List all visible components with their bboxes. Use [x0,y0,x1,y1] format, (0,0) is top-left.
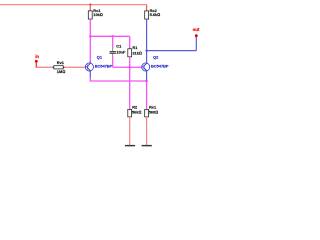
wire Re1 to ground [146,117,148,145]
resistor Rv1 [53,60,66,74]
wire out horizontal [147,50,197,52]
wire Q1 emitter lead [89,71,91,78]
wire R1 top lead [129,36,131,49]
resistor Rc2 [145,8,160,19]
node emitter junction dot [145,80,147,82]
ground right [142,145,152,146]
node collector junction dot [89,35,91,37]
resistor R1 [128,45,142,57]
svg-text:BC547BP: BC547BP [95,64,113,69]
svg-text:R1: R1 [132,45,138,50]
svg-text:56kΩ: 56kΩ [132,109,141,114]
wire Q1 emitter elbow [89,77,91,81]
wire Q1 collector lead [89,61,91,63]
wire Q1 collector column [89,19,91,62]
wire R2 to ground [129,117,131,145]
svg-text:Q1: Q1 [97,55,103,60]
svg-text:5.6kΩ: 5.6kΩ [150,12,161,17]
svg-text:31kΩ: 31kΩ [132,51,141,56]
wire Rv1 to Q1 base [64,66,85,68]
node Q2 base junction dot [129,66,131,68]
wire R1 bottom to R2 column [129,57,131,110]
svg-text:in: in [35,54,39,59]
svg-text:C1: C1 [116,44,122,49]
svg-text:out: out [193,27,200,32]
wire emitter line [90,80,146,82]
node C1 top junction dot [112,35,114,37]
node VCC junction dot [89,4,91,6]
wire input to Rv1 [36,66,53,68]
node out junction dot [145,49,147,51]
svg-text:Rv1: Rv1 [57,60,65,65]
wire C1 top lead [112,36,114,47]
capacitor C1 [110,44,126,58]
svg-text:10nF: 10nF [116,50,126,55]
transistor Q2 [142,55,169,71]
wire Rc2 supply stub [146,5,148,12]
wire Rc2/Q2 collector column [146,19,148,63]
svg-text:10kΩ: 10kΩ [93,12,102,17]
wire VCC rail [0,4,147,6]
node out terminal [195,34,198,37]
wire Q2 base line [113,66,142,68]
svg-text:1MΩ: 1MΩ [57,69,65,74]
wire C1 bottom lead [112,57,114,67]
svg-text:Q2: Q2 [153,55,159,60]
resistor Rc1 [88,8,102,19]
wire out vertical [195,37,197,51]
wire input drop [35,62,37,68]
transistor Q1 [85,55,112,71]
resistor R2 [128,104,142,117]
wire Q2 emitter lead [146,71,148,81]
svg-text:BC547BP: BC547BP [151,64,169,69]
wire Re1 top [146,81,148,110]
wire feedback node line [90,35,129,37]
ground left [125,145,135,146]
wire Rc1 supply stub [89,5,91,12]
resistor Re1 [145,104,158,117]
svg-text:560Ω: 560Ω [149,109,158,114]
